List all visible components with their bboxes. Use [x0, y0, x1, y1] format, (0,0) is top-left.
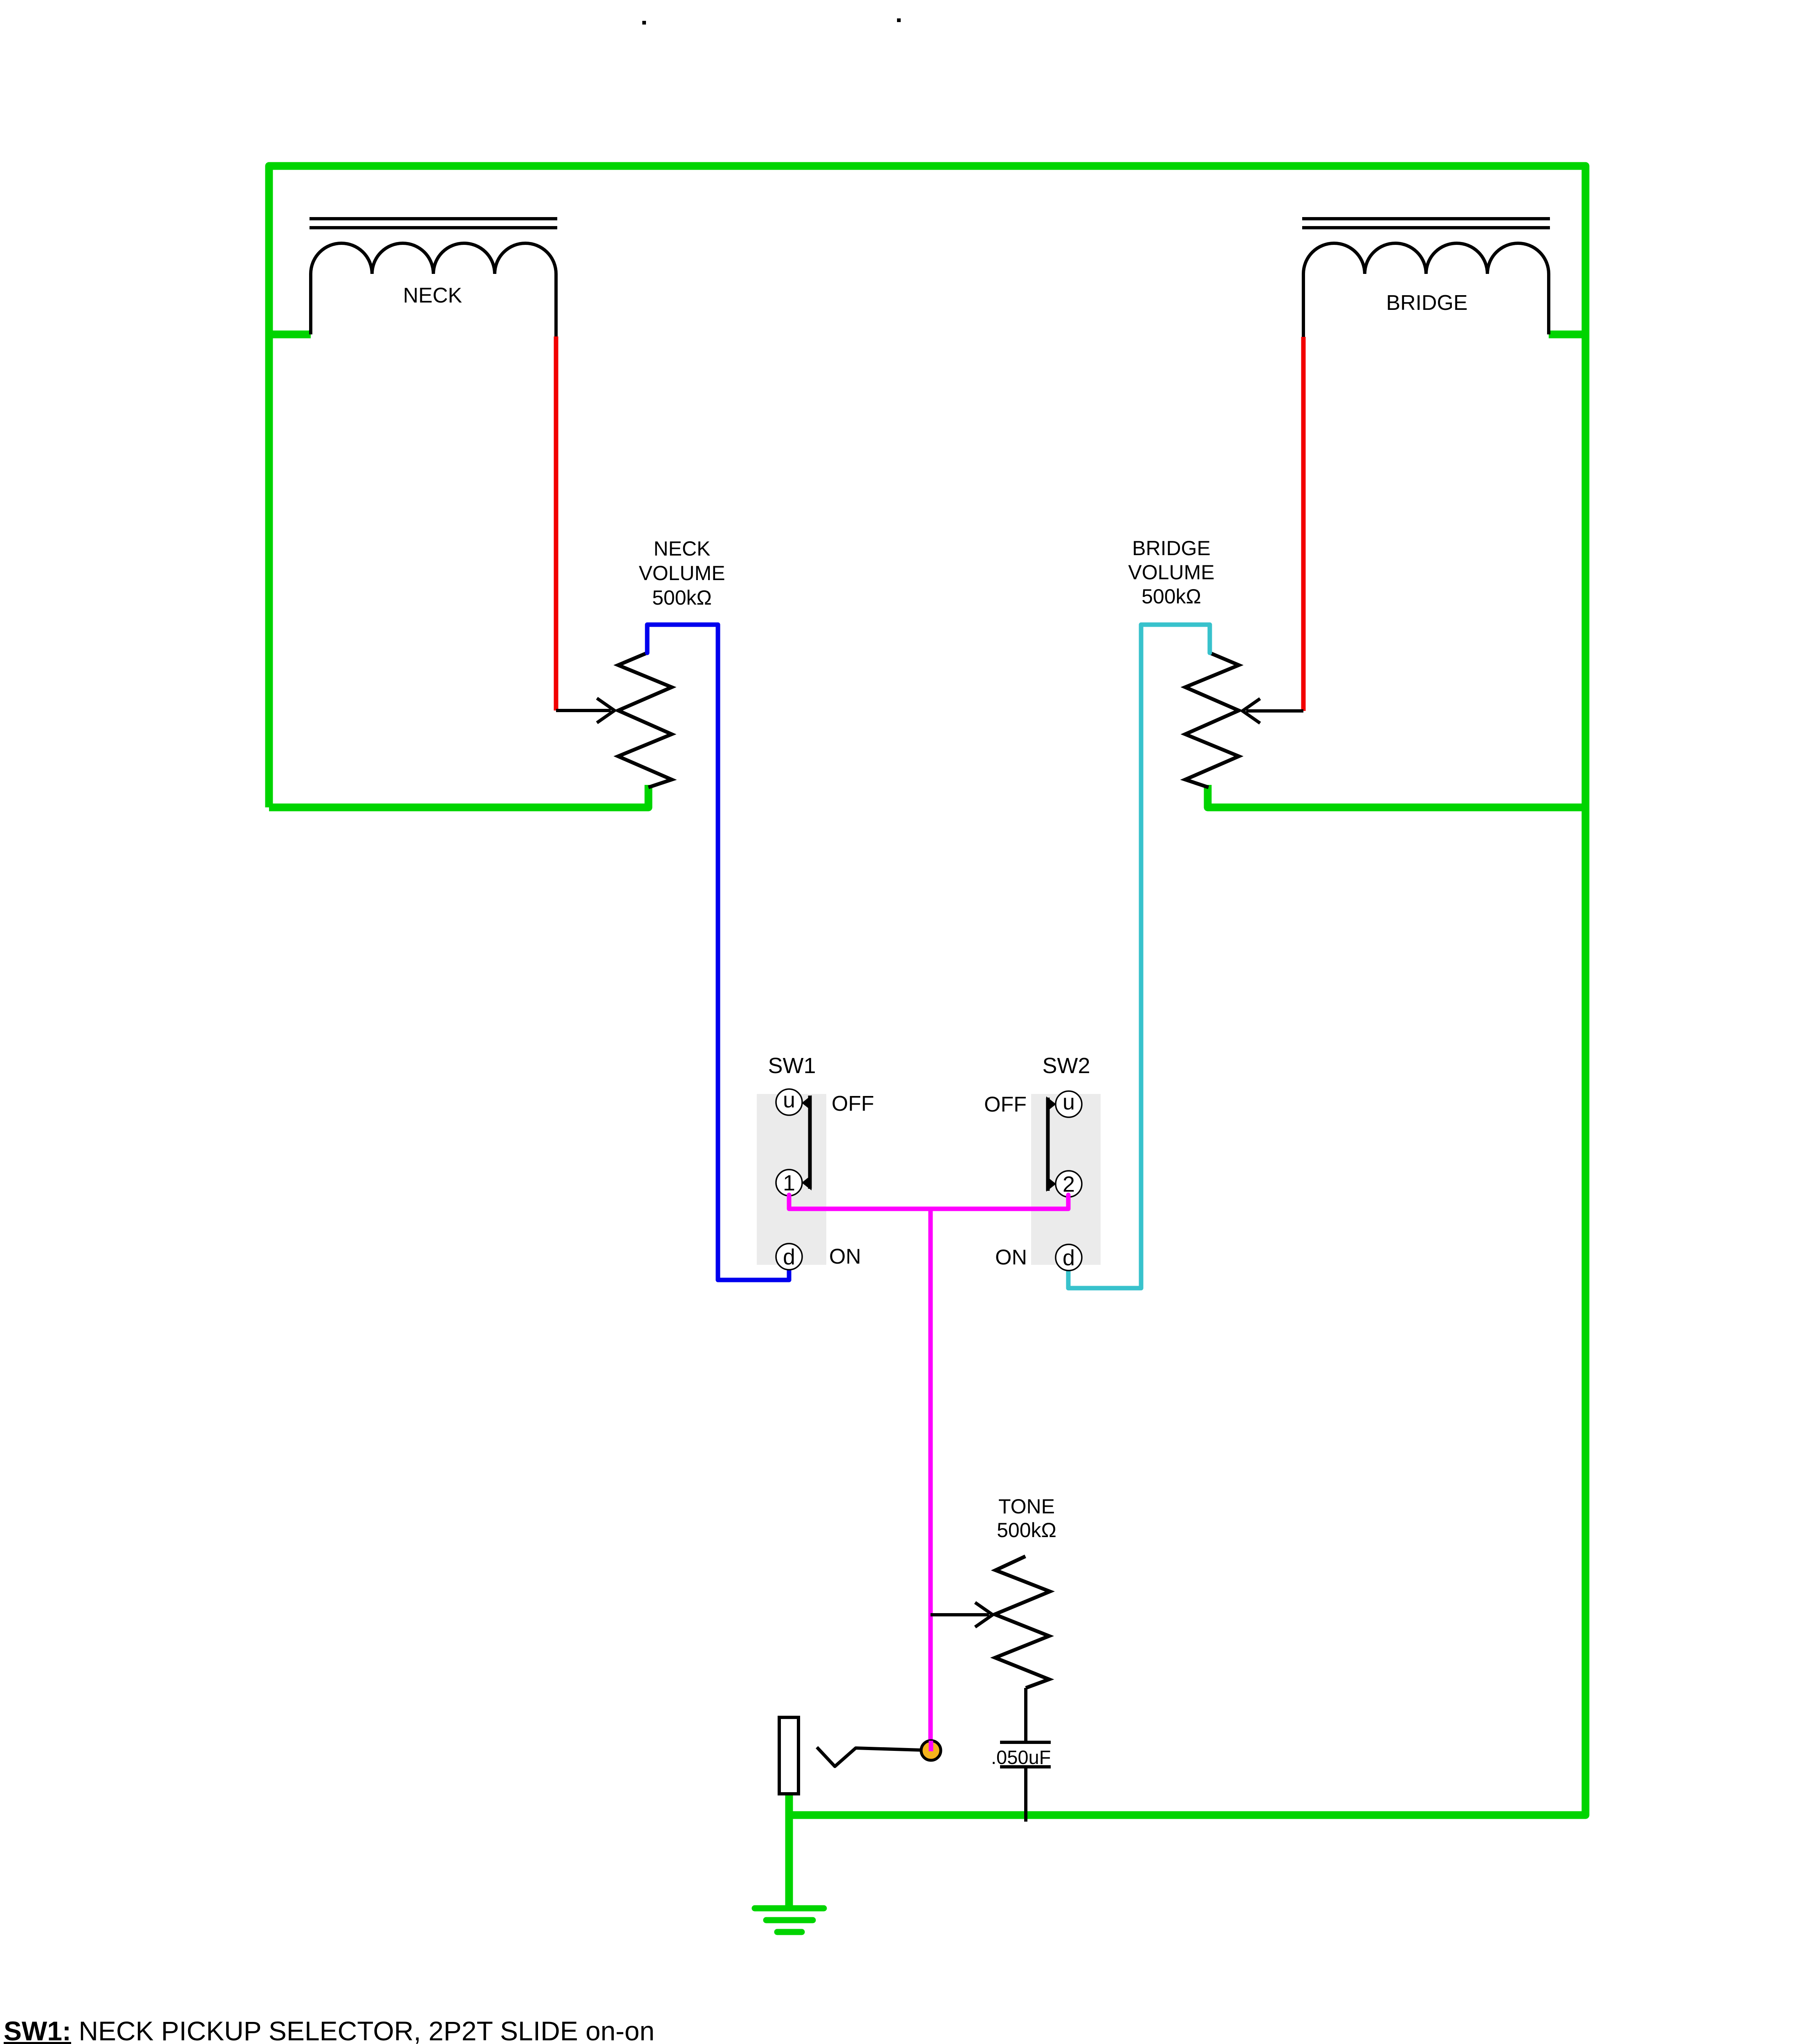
svg-text:NECK: NECK — [654, 537, 711, 560]
wire green ground main loop (top bus, left rail, right rail, bottom bus) — [269, 166, 1585, 1815]
wire green stub bridge pickup to right rail — [1549, 331, 1585, 338]
wire green stub to neck pickup — [269, 331, 311, 338]
svg-text:SW1: NECK PICKUP SELECTOR, 2P2: SW1: NECK PICKUP SELECTOR, 2P2T SLIDE on… — [4, 2016, 655, 2044]
SW2 terminal u — [1056, 1091, 1082, 1117]
tone pot lead to capacitor — [1024, 1688, 1027, 1742]
SW2 terminal d — [1056, 1244, 1082, 1271]
SW1 contact triangle at u — [802, 1095, 812, 1111]
node dot top right — [897, 18, 901, 22]
SW2 terminal 2 — [1056, 1171, 1082, 1197]
svg-text:SW2: SW2 — [1042, 1053, 1090, 1078]
switch SW1 body — [757, 1094, 826, 1265]
bridge pickup pole pieces (double line) — [1302, 219, 1550, 228]
svg-text:VOLUME: VOLUME — [1128, 561, 1214, 584]
svg-text:500kΩ: 500kΩ — [997, 1519, 1056, 1542]
bridge volume wiper arrow — [1246, 709, 1303, 713]
svg-text:BRIDGE: BRIDGE — [1132, 537, 1211, 560]
wire green right loop bottom + stub to bridge volume pot — [1208, 785, 1585, 807]
svg-text:u: u — [1063, 1090, 1075, 1114]
SW1 terminal d — [776, 1244, 802, 1270]
node dot top left — [642, 21, 646, 25]
neck pickup pole pieces (double line) — [309, 219, 557, 228]
switch SW2 body — [1031, 1094, 1101, 1265]
SW2 lever — [1046, 1098, 1050, 1191]
svg-text:d: d — [1063, 1246, 1075, 1270]
output jack body — [779, 1717, 798, 1794]
node jack tip (orange) — [921, 1741, 941, 1760]
SW1 terminal 1 — [776, 1170, 802, 1196]
svg-text:d: d — [783, 1245, 795, 1269]
capacitor lead to ground bus — [1024, 1767, 1027, 1822]
wire blue neck volume out to SW1 pole 1 — [647, 625, 789, 1280]
svg-text:OFF: OFF — [984, 1093, 1027, 1116]
wire magenta SW1-1 and SW2-2 to output — [789, 1195, 1068, 1209]
potentiometer NECK VOLUME 500k resistor zigzag — [618, 653, 672, 787]
svg-text:1: 1 — [783, 1171, 795, 1195]
neck volume wiper arrow — [556, 709, 611, 712]
wire red bridge pickup hot to bridge volume wiper — [1301, 337, 1306, 711]
SW2 contact triangle at u — [1046, 1096, 1056, 1112]
wire magenta tip over node — [929, 1741, 933, 1751]
svg-text:TONE: TONE — [998, 1495, 1055, 1518]
tone wiper arrow — [931, 1613, 989, 1616]
SW1 contact triangle at 1 — [802, 1175, 812, 1190]
svg-text:ON: ON — [995, 1246, 1027, 1269]
wire cyan bridge volume out to SW2 pole 2 — [1068, 625, 1210, 1288]
svg-text:OFF: OFF — [832, 1092, 874, 1116]
capacitor .050uF — [1000, 1742, 1051, 1767]
svg-text:VOLUME: VOLUME — [639, 562, 725, 585]
svg-text:ON: ON — [829, 1245, 861, 1269]
potentiometer BRIDGE VOLUME 500k resistor zigzag — [1185, 653, 1239, 787]
wire green left loop bottom + stub to neck volume pot — [269, 785, 648, 807]
ground symbol — [755, 1908, 824, 1932]
svg-text:BRIDGE: BRIDGE — [1386, 291, 1467, 315]
potentiometer TONE 500k resistor zigzag — [995, 1556, 1050, 1688]
svg-text:SW1: SW1 — [768, 1053, 816, 1078]
svg-text:NECK: NECK — [403, 284, 462, 307]
svg-text:500kΩ: 500kΩ — [652, 586, 712, 609]
neck pickup coil — [311, 243, 556, 336]
output jack tip contact — [817, 1747, 921, 1766]
svg-text:500kΩ: 500kΩ — [1141, 585, 1201, 608]
SW1 terminal u — [776, 1089, 802, 1115]
SW1 lever — [808, 1096, 812, 1189]
wire magenta output down to jack tip node — [928, 1209, 933, 1750]
SW2 contact triangle at 2 — [1046, 1176, 1056, 1192]
wire red neck pickup hot to neck volume wiper — [554, 336, 558, 710]
bridge pickup coil — [1303, 243, 1549, 337]
wire green jack sleeve to ground — [785, 1794, 793, 1908]
svg-text:.050uF: .050uF — [991, 1746, 1051, 1768]
svg-text:u: u — [783, 1088, 795, 1112]
